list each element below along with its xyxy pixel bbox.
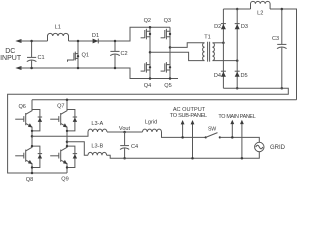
svg-text:Q2: Q2	[144, 18, 151, 24]
inductor L3-A	[88, 121, 107, 132]
capacitor C3	[272, 9, 287, 88]
main panel hot arrow	[230, 120, 234, 139]
transformer T1	[203, 35, 215, 62]
inductor Lgrid	[143, 120, 162, 132]
inductor L2	[251, 1, 271, 16]
wire rectifier left rail	[222, 9, 224, 88]
inductor L1	[48, 24, 69, 41]
diode D2	[214, 24, 226, 31]
transistor Q9	[50, 142, 77, 183]
svg-text:GRID: GRID	[270, 145, 286, 151]
node Vout junction	[119, 126, 131, 133]
input positive arrow	[15, 39, 21, 43]
svg-text:Vout: Vout	[119, 126, 131, 132]
input negative arrow	[15, 66, 21, 70]
wire bottom input rail	[20, 68, 178, 79]
svg-text:T1: T1	[204, 35, 211, 41]
svg-text:Q8: Q8	[26, 177, 33, 183]
diode D3	[235, 24, 248, 31]
svg-text:SW: SW	[208, 126, 216, 132]
node bridge right output	[169, 46, 172, 80]
AC source GRID	[255, 142, 286, 151]
diode D4	[214, 71, 226, 79]
node input+ junctions	[30, 40, 116, 43]
diode D1	[92, 33, 99, 43]
node secondary top junction	[222, 42, 225, 45]
svg-text:C2: C2	[121, 51, 128, 57]
wire hot output line	[32, 132, 88, 136]
wire T1 secondary top	[213, 42, 224, 44]
wire rectifier right rail	[236, 9, 238, 88]
svg-text:L2: L2	[257, 10, 263, 16]
svg-text:Q3: Q3	[164, 18, 171, 24]
svg-text:D5: D5	[241, 73, 248, 79]
svg-text:C3: C3	[272, 36, 279, 42]
DC INPUT label	[0, 48, 22, 62]
wire hot line to switch	[162, 132, 206, 137]
transistor Q6	[15, 100, 42, 137]
capacitor C1	[27, 41, 45, 68]
svg-text:TO MAIN PANEL: TO MAIN PANEL	[218, 114, 255, 120]
inductor L3-B	[88, 143, 107, 155]
wire DC+ feed to output bridge	[32, 99, 297, 101]
capacitor C2	[110, 41, 127, 68]
node rectifier bottom junction	[236, 87, 239, 90]
diode D5	[235, 71, 248, 79]
wire hot line middle	[107, 131, 143, 133]
svg-text:TO SUB-PANEL: TO SUB-PANEL	[170, 113, 207, 119]
svg-text:D2: D2	[214, 24, 221, 30]
transistor Q5	[161, 47, 172, 89]
svg-text:INPUT: INPUT	[0, 55, 22, 62]
node bridge left output	[149, 51, 152, 80]
svg-text:Q4: Q4	[144, 83, 151, 89]
wire switch to grid	[220, 137, 259, 142]
svg-text:L3-B: L3-B	[91, 143, 103, 149]
svg-text:D3: D3	[241, 24, 248, 30]
main panel neutral arrow	[240, 120, 244, 160]
transistor Q3	[161, 18, 172, 48]
sub-panel neutral arrow	[191, 120, 195, 159]
wire DC link bottom rail	[8, 88, 289, 173]
node rectifier top junction	[236, 8, 239, 11]
capacitor C4	[120, 132, 138, 159]
node output bridge right mid	[66, 140, 69, 143]
AC OUTPUT TO SUB-PANEL label	[170, 107, 207, 119]
node output bridge left mid	[31, 135, 34, 138]
sub-panel hot arrow	[181, 120, 185, 139]
wire bridge to T1 primary top	[170, 43, 205, 48]
node input- junctions	[30, 67, 116, 70]
svg-text:L3-A: L3-A	[91, 121, 103, 127]
svg-text:DC: DC	[5, 48, 15, 55]
wire neutral line run	[107, 152, 260, 159]
transistor Q7	[50, 98, 77, 141]
svg-text:Lgrid: Lgrid	[145, 120, 157, 126]
transistor Q8	[15, 136, 42, 183]
transistor Q1	[68, 41, 89, 68]
svg-text:Q1: Q1	[82, 52, 89, 58]
TO MAIN PANEL label	[218, 114, 255, 120]
wire top input rail	[20, 27, 170, 41]
svg-text:Q9: Q9	[61, 177, 68, 183]
node C3 top junction	[281, 8, 284, 11]
transistor Q4	[141, 52, 152, 89]
svg-text:L1: L1	[55, 24, 61, 30]
svg-text:Q7: Q7	[57, 104, 64, 110]
svg-text:Q5: Q5	[164, 83, 171, 89]
svg-text:D4: D4	[214, 73, 221, 79]
svg-text:C4: C4	[131, 144, 138, 150]
svg-text:C1: C1	[38, 55, 45, 61]
svg-text:D1: D1	[92, 33, 99, 39]
wire neutral output line	[67, 142, 88, 156]
transistor Q2	[141, 18, 152, 53]
wire bridge to T1 primary bottom	[150, 52, 205, 60]
wire DC link top rail	[223, 9, 296, 100]
switch SW	[205, 126, 221, 138]
wire T1 secondary bottom	[213, 60, 238, 62]
node C3 bottom junction	[281, 87, 284, 90]
node secondary bottom junction	[236, 59, 239, 62]
svg-text:Q6: Q6	[18, 104, 25, 110]
